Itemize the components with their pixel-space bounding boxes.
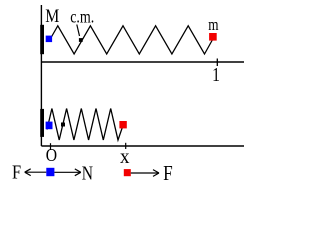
svg-text:1: 1 [212, 63, 220, 85]
mass M blue square (top) [46, 36, 52, 43]
bottom axis line [41, 145, 244, 147]
top axis line [41, 61, 244, 63]
origin tick [50, 143, 52, 150]
svg-text:O: O [46, 145, 57, 165]
blue square (force diagram) [46, 168, 54, 176]
c.m. dot on bottom spring [61, 123, 65, 127]
mass m red square (bottom) [119, 121, 126, 128]
tick for natural length l [216, 59, 218, 67]
wall (top) [40, 25, 44, 54]
x position tick [125, 143, 127, 149]
svg-text:x: x [120, 147, 130, 169]
svg-text:N: N [82, 162, 93, 184]
svg-text:F: F [12, 161, 21, 183]
force arrow right (applied force F) [131, 172, 159, 174]
svg-text:M: M [45, 5, 59, 27]
mass m red square (top) [209, 33, 217, 41]
spring (top, relaxed) [51, 26, 214, 54]
svg-text:m: m [208, 17, 219, 35]
force arrow left (spring force F) [25, 171, 46, 173]
wall (bottom) [40, 109, 44, 137]
force arrow right (normal force N) [54, 171, 80, 173]
red square (force diagram) [124, 169, 131, 176]
y-axis vertical line [40, 5, 42, 146]
c.m. dot on top spring [79, 38, 83, 42]
mass M blue square (bottom) [46, 122, 53, 130]
svg-text:F: F [163, 163, 173, 186]
spring (bottom, compressed) [47, 109, 123, 141]
c.m. callout line [77, 25, 80, 37]
svg-text:c.m.: c.m. [70, 8, 94, 27]
